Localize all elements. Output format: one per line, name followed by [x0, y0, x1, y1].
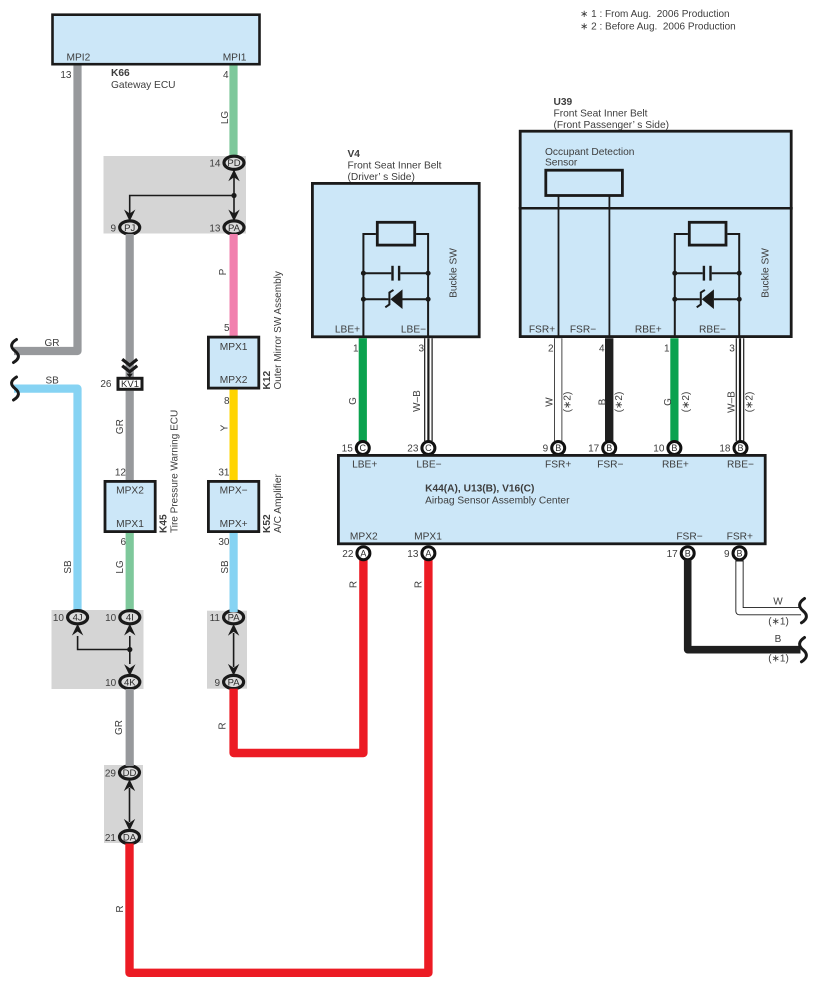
break symbol GR wire	[12, 340, 19, 363]
wire V4 internal right	[416, 234, 428, 338]
junction connector block 4J/4I/4K	[52, 610, 144, 689]
arrow down into PA	[228, 210, 239, 222]
svg-text:SB: SB	[63, 560, 74, 574]
node dot diode right U39	[737, 297, 742, 302]
U39 box	[519, 131, 793, 336]
svg-text:10: 10	[105, 613, 117, 624]
svg-text:∗ 2 : Before Aug. 2006 Produc: ∗ 2 : Before Aug. 2006 Production	[580, 22, 736, 33]
node dot diode left	[361, 297, 366, 302]
wire B from U39 pin4	[597, 338, 625, 441]
svg-text:R: R	[115, 905, 126, 912]
svg-text:12: 12	[115, 468, 127, 479]
svg-text:RBE−: RBE−	[727, 459, 754, 470]
wire U39 buckle internal right	[727, 234, 739, 338]
svg-text:MPI2: MPI2	[67, 53, 91, 64]
K45 box	[105, 481, 155, 531]
svg-text:R: R	[348, 581, 359, 588]
svg-text:FSR+: FSR+	[727, 531, 753, 542]
svg-text:LBE−: LBE−	[416, 459, 441, 470]
svg-text:PA: PA	[228, 677, 241, 688]
connector circle 18 B	[719, 442, 747, 455]
svg-text:6: 6	[120, 537, 126, 548]
svg-text:LBE+: LBE+	[335, 324, 360, 335]
connector circle 13 A	[407, 547, 435, 560]
svg-text:MPX1: MPX1	[414, 531, 442, 542]
wire W-B from U39 pin3	[727, 338, 756, 441]
wire B from airbag FSR- 17B	[688, 560, 801, 665]
node dot cap right U39	[737, 271, 742, 276]
connector PA pin 13	[209, 221, 244, 234]
wire W from U39 pin2	[544, 338, 573, 441]
wire sensor right lead	[608, 196, 610, 339]
svg-text:9: 9	[110, 223, 116, 234]
wire SB from left	[14, 375, 78, 612]
svg-text:Sensor: Sensor	[545, 158, 578, 169]
arrow up into PD	[228, 170, 239, 182]
svg-text:10: 10	[653, 444, 665, 455]
U39 label	[554, 97, 670, 131]
K52 box	[208, 481, 258, 531]
shield chevrons above KV1	[122, 359, 137, 378]
svg-text:LBE+: LBE+	[352, 459, 377, 470]
svg-text:LG: LG	[115, 560, 126, 574]
svg-text:Occupant Detection: Occupant Detection	[545, 147, 634, 158]
connector DD pin 29	[105, 766, 140, 779]
svg-text:(∗2): (∗2)	[744, 392, 755, 413]
arrow down into DA	[124, 819, 135, 831]
svg-text:13: 13	[407, 549, 419, 560]
svg-text:W–B: W–B	[727, 391, 738, 413]
svg-text:MPX2: MPX2	[350, 531, 378, 542]
svg-text:30: 30	[218, 537, 230, 548]
svg-text:Outer Mirror SW Assembly: Outer Mirror SW Assembly	[273, 271, 284, 389]
wire PA-PA link	[233, 633, 235, 667]
wire sensor left lead	[558, 196, 560, 339]
svg-text:FSR−: FSR−	[597, 459, 623, 470]
svg-text:RBE+: RBE+	[635, 324, 662, 335]
junction connector block DD/DA	[104, 765, 143, 843]
svg-text:Front Seat Inner Belt: Front Seat Inner Belt	[348, 161, 442, 172]
svg-text:V4: V4	[348, 149, 361, 160]
connector PD pin 14	[209, 156, 244, 169]
svg-text:B: B	[737, 443, 743, 453]
terminal labels U39	[529, 324, 726, 335]
svg-text:4J: 4J	[73, 613, 83, 624]
svg-text:G: G	[663, 398, 674, 406]
svg-text:Airbag Sensor Assembly Center: Airbag Sensor Assembly Center	[425, 496, 570, 507]
svg-text:(∗1): (∗1)	[768, 617, 789, 628]
connector 4J pin 10	[53, 611, 88, 624]
svg-text:C: C	[360, 443, 367, 453]
svg-text:5: 5	[224, 323, 230, 334]
svg-text:MPX1: MPX1	[220, 342, 248, 353]
svg-text:26: 26	[100, 379, 112, 390]
svg-text:13: 13	[60, 70, 72, 81]
arrow up into PA(11)	[228, 624, 239, 636]
svg-text:22: 22	[342, 549, 354, 560]
wire G from V4 pin1	[348, 338, 363, 441]
svg-text:17: 17	[667, 549, 679, 560]
svg-text:K45: K45	[158, 514, 169, 533]
wire V4 internal left	[363, 234, 376, 338]
svg-text:9: 9	[214, 678, 220, 689]
svg-text:GR: GR	[114, 720, 125, 735]
wire GR from 4K to DD	[114, 689, 130, 766]
svg-text:C: C	[425, 443, 432, 453]
connector circle 17 B	[588, 442, 616, 455]
svg-text:14: 14	[209, 159, 221, 170]
zener diode U39	[675, 289, 739, 309]
node dot cap left U39	[672, 271, 677, 276]
svg-text:29: 29	[105, 768, 117, 779]
node junction dot	[231, 193, 236, 198]
connector KV1 pin 26	[100, 378, 142, 390]
svg-text:GR: GR	[115, 419, 126, 434]
svg-text:P: P	[218, 268, 229, 275]
svg-text:4I: 4I	[126, 613, 134, 624]
connector PA pin 11	[210, 611, 244, 624]
connector circle 22 A	[342, 547, 370, 560]
svg-text:17: 17	[588, 444, 600, 455]
connector 4K pin 10	[105, 675, 140, 688]
capacitor V4	[363, 266, 428, 281]
wire PD stem	[233, 170, 235, 196]
svg-text:RBE−: RBE−	[699, 324, 726, 335]
svg-text:(Driver’ s Side): (Driver’ s Side)	[348, 172, 415, 183]
svg-text:13: 13	[209, 223, 221, 234]
svg-text:(∗1): (∗1)	[768, 654, 789, 665]
svg-text:Buckle SW: Buckle SW	[449, 248, 460, 298]
svg-text:B: B	[555, 443, 561, 453]
break symbol SB wire	[12, 377, 19, 400]
svg-text:K44(A), U13(B), V16(C): K44(A), U13(B), V16(C)	[425, 484, 534, 495]
connector PJ pin 9	[110, 221, 139, 234]
wire LG from K45 pin6	[115, 533, 130, 612]
svg-text:21: 21	[105, 833, 117, 844]
svg-text:MPX−: MPX−	[220, 486, 248, 497]
svg-text:B: B	[597, 398, 608, 405]
svg-text:PA: PA	[228, 223, 241, 234]
svg-text:K66: K66	[111, 68, 130, 79]
svg-text:PD: PD	[227, 158, 240, 169]
svg-text:SB: SB	[46, 375, 60, 386]
svg-text:W: W	[544, 397, 555, 407]
wire W-B from V4 pin3	[412, 338, 429, 441]
svg-text:PJ: PJ	[124, 223, 135, 234]
svg-text:SB: SB	[220, 560, 231, 574]
junction connector block PD/PJ/PA	[104, 156, 247, 234]
svg-text:(∗2): (∗2)	[681, 392, 692, 413]
junction connector block PA/PA	[207, 611, 247, 689]
airbag sensor assembly center box	[338, 455, 765, 543]
svg-text:10: 10	[53, 613, 65, 624]
connector circle 9 B	[543, 442, 565, 455]
svg-text:8: 8	[224, 396, 230, 407]
wire R from DA to airbag MPX1 13A	[115, 560, 428, 973]
svg-text:B: B	[671, 443, 677, 453]
svg-text:4K: 4K	[124, 677, 136, 688]
svg-text:10: 10	[105, 678, 117, 689]
svg-text:RBE+: RBE+	[662, 459, 689, 470]
svg-text:FSR−: FSR−	[570, 324, 596, 335]
wire PJ-PA bus	[130, 196, 234, 222]
svg-text:LBE−: LBE−	[401, 324, 426, 335]
svg-text:R: R	[218, 722, 229, 729]
svg-text:LG: LG	[220, 111, 231, 125]
terminal labels V4	[335, 324, 426, 335]
svg-text:MPX2: MPX2	[116, 486, 144, 497]
svg-text:Y: Y	[220, 424, 231, 431]
svg-text:MPX2: MPX2	[220, 375, 248, 386]
svg-text:MPX1: MPX1	[116, 519, 144, 530]
svg-text:9: 9	[724, 549, 730, 560]
K66 label	[111, 68, 176, 91]
connector circle 15 C	[342, 442, 370, 455]
wire 4J-4I-4K bus	[78, 636, 130, 650]
connector circle 23 C	[407, 442, 435, 455]
svg-text:9: 9	[543, 444, 549, 455]
zener diode V4	[363, 289, 428, 309]
wire W from airbag FSR+ 9B	[740, 560, 802, 628]
break symbol W wire right	[800, 599, 807, 623]
wire P from PA to K12 pin5	[218, 234, 233, 337]
svg-text:DD: DD	[123, 768, 137, 779]
arrow up into DD	[124, 779, 135, 791]
V4 box	[312, 183, 479, 336]
node junction dot	[127, 647, 132, 652]
svg-text:GR: GR	[45, 338, 60, 349]
switch body V4	[377, 222, 414, 245]
svg-text:∗ 1 : From Aug. 2006 Producti: ∗ 1 : From Aug. 2006 Production	[580, 9, 730, 20]
wire R from PA(9) to airbag MPX2 22A	[218, 560, 364, 753]
wire LG from K66 pin4	[220, 66, 233, 159]
K45 label	[158, 410, 180, 533]
svg-text:A: A	[360, 548, 366, 558]
wire GR from PJ to KV1	[115, 234, 130, 434]
svg-text:R: R	[413, 581, 424, 588]
svg-text:Tire Pressure Warning ECU: Tire Pressure Warning ECU	[170, 410, 181, 533]
wire G from U39 pin1	[663, 338, 692, 441]
node dot cap left	[361, 271, 366, 276]
svg-text:K52: K52	[262, 514, 273, 533]
svg-text:MPX+: MPX+	[220, 519, 248, 530]
svg-text:FSR−: FSR−	[676, 531, 702, 542]
svg-text:1: 1	[353, 344, 359, 355]
V4 label	[348, 149, 442, 183]
arrow down into PA(9)	[228, 664, 239, 676]
svg-text:G: G	[348, 397, 359, 405]
capacitor U39	[675, 266, 739, 281]
svg-text:K12: K12	[262, 370, 273, 389]
svg-text:FSR+: FSR+	[529, 324, 555, 335]
svg-text:PA: PA	[228, 613, 241, 624]
svg-text:W–B: W–B	[412, 390, 423, 412]
K12 box	[208, 337, 258, 388]
connector circle 10 B	[653, 442, 681, 455]
svg-text:1: 1	[664, 344, 670, 355]
svg-text:Buckle SW: Buckle SW	[761, 248, 772, 298]
arrow up into 4I	[124, 624, 135, 636]
wire GR from K66 pin13	[14, 66, 78, 352]
svg-text:(∗2): (∗2)	[563, 392, 574, 413]
arrow down into 4K	[124, 664, 135, 676]
arrow up into 4J	[72, 624, 83, 636]
svg-text:B: B	[736, 548, 742, 558]
svg-text:3: 3	[729, 344, 735, 355]
break symbol B wire right	[800, 638, 807, 662]
svg-text:18: 18	[719, 444, 731, 455]
svg-text:4: 4	[223, 70, 229, 81]
K12 label	[262, 271, 284, 389]
node dot diode right	[426, 297, 431, 302]
connector PA pin 9	[214, 675, 243, 688]
node dot cap right	[426, 271, 431, 276]
ECU K66 box	[53, 15, 260, 64]
arrow down into PJ	[124, 210, 135, 222]
svg-text:15: 15	[342, 444, 354, 455]
svg-text:2: 2	[548, 344, 554, 355]
svg-text:4: 4	[599, 344, 605, 355]
svg-text:A/C Amplifier: A/C Amplifier	[273, 474, 284, 533]
wire GR from KV1 to K45 pin12	[126, 391, 134, 481]
svg-text:B: B	[606, 443, 612, 453]
svg-text:31: 31	[218, 468, 230, 479]
svg-text:Front Seat Inner Belt: Front Seat Inner Belt	[554, 109, 648, 120]
svg-text:W: W	[773, 597, 783, 608]
svg-text:(Front Passenger’ s Side): (Front Passenger’ s Side)	[554, 120, 670, 131]
svg-text:Gateway ECU: Gateway ECU	[111, 80, 176, 91]
svg-text:KV1: KV1	[121, 379, 139, 390]
svg-text:11: 11	[210, 613, 221, 624]
wire DD-DA link	[129, 788, 131, 822]
svg-text:(∗2): (∗2)	[614, 392, 625, 413]
switch body U39	[689, 222, 726, 245]
svg-text:FSR+: FSR+	[545, 459, 571, 470]
svg-text:U39: U39	[554, 97, 573, 108]
wire Y from K12 to K52 pin31	[220, 390, 234, 481]
connector 4I pin 10	[105, 611, 140, 624]
svg-text:A: A	[425, 548, 431, 558]
svg-text:DA: DA	[123, 832, 137, 843]
connector circle 9 B bottom	[724, 547, 746, 560]
svg-text:B: B	[775, 634, 782, 645]
connector DA pin 21	[105, 830, 140, 843]
svg-text:B: B	[685, 548, 691, 558]
svg-text:3: 3	[418, 344, 424, 355]
occupant detection sensor	[545, 147, 634, 196]
connector circle 17 B bottom	[667, 547, 695, 560]
svg-text:MPI1: MPI1	[223, 53, 247, 64]
svg-text:23: 23	[407, 444, 419, 455]
wire U39 buckle internal left	[675, 234, 688, 338]
wire SB from K52 to PA(11)	[220, 533, 234, 612]
K52 label	[262, 474, 284, 533]
node dot diode left U39	[672, 297, 677, 302]
